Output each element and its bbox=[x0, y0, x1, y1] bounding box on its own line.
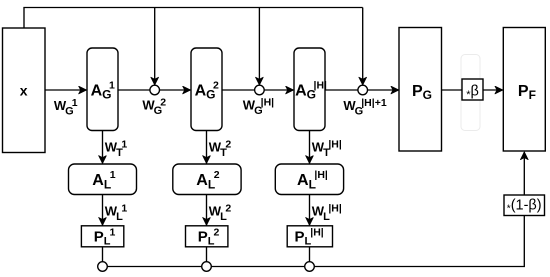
block A_G^|H| bbox=[294, 48, 327, 131]
block P_G bbox=[399, 28, 442, 152]
block A_L^1 bbox=[69, 164, 137, 195]
node: bottom circle 2 bbox=[202, 262, 212, 272]
svg-text:*(1-β): *(1-β) bbox=[507, 197, 542, 214]
wire: node to A_G^|H| arrow bbox=[264, 89, 293, 91]
wire: top branch arrow into sum node W_G^|H| bbox=[258, 8, 260, 85]
wire: A_G^1 down to A_L^1 arrow (W_T^1) bbox=[102, 131, 104, 164]
node: bottom circle 1 bbox=[98, 262, 108, 272]
faint ghost outline near beta scaler bbox=[461, 55, 480, 131]
wire: node to A_G^2 arrow bbox=[160, 89, 191, 91]
wire: *beta to P_F arrow bbox=[483, 89, 503, 91]
wire: P_L^1 down to bottom node bbox=[102, 247, 104, 262]
block A_G^2 bbox=[191, 48, 222, 131]
wire: top branch arrow into sum node W_G^2 bbox=[154, 8, 156, 85]
block x (input) bbox=[3, 28, 46, 153]
wire: node to P_G arrow bbox=[368, 89, 399, 91]
block *beta scaler bbox=[462, 79, 483, 101]
wire: A_G^|H| to node bbox=[325, 89, 363, 91]
svg-text:x: x bbox=[20, 83, 28, 99]
block *(1-beta) scaler bbox=[504, 195, 545, 216]
wire: *(1-beta) up to P_F arrow bbox=[523, 152, 525, 195]
wire: A_G^|H| down to A_L^|H| arrow (W_T^|H|) bbox=[309, 131, 311, 164]
block P_F bbox=[503, 28, 545, 152]
block P_L^1 bbox=[81, 226, 123, 248]
wire: P_L^2 down to bottom node bbox=[206, 246, 208, 262]
wire: A_L^2 down to P_L^2 arrow (W_L^2) bbox=[206, 195, 208, 226]
wire: top branch arrow into sum node W_G^|H|+1 bbox=[362, 8, 364, 85]
wire: P_G to *beta bbox=[442, 89, 463, 91]
wire: A_G^2 down to A_L^2 arrow (W_T^2) bbox=[206, 131, 208, 164]
wire: bottom bus joining nodes and up to *(1-beta) bbox=[103, 216, 525, 267]
block A_L^2 bbox=[173, 164, 241, 195]
node: sum circle W_G^2 bbox=[150, 85, 160, 95]
wire: A_L^1 down to P_L^1 arrow (W_L^1) bbox=[102, 195, 104, 226]
wire: x to A_G^1 arrow bbox=[45, 89, 86, 91]
block P_L^2 bbox=[186, 226, 228, 248]
wire: A_G^1 to node bbox=[118, 89, 155, 91]
block A_L^|H| bbox=[275, 164, 343, 195]
wire: feedback line from x top across the top bbox=[24, 8, 363, 29]
wire: A_L^|H| down to P_L^|H| arrow (W_L^|H|) bbox=[309, 195, 311, 226]
node: bottom circle 3 bbox=[305, 262, 315, 272]
block P_L^|H| bbox=[287, 226, 332, 248]
node: sum circle W_G^|H|+1 bbox=[358, 85, 368, 95]
node: sum circle W_G^|H| bbox=[255, 85, 265, 95]
wire: A_G^2 to node bbox=[222, 89, 259, 91]
wire: P_L^|H| down to bottom node bbox=[309, 246, 311, 262]
block A_G^1 bbox=[87, 48, 118, 131]
